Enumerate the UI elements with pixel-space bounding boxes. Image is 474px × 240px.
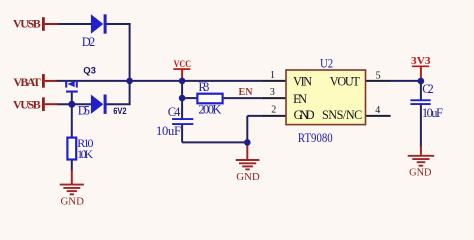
svg-text:D2: D2 [82, 35, 96, 49]
svg-text:4: 4 [375, 105, 380, 116]
svg-text:GND: GND [60, 196, 84, 208]
svg-text:VOUT: VOUT [330, 74, 361, 88]
svg-text:RT9080: RT9080 [298, 131, 333, 145]
svg-text:GND: GND [236, 171, 260, 183]
svg-text:200K: 200K [198, 103, 221, 117]
svg-text:5: 5 [376, 71, 381, 82]
svg-text:GND: GND [294, 108, 315, 122]
svg-text:10uF: 10uF [156, 124, 181, 138]
svg-text:3: 3 [270, 87, 275, 98]
svg-text:EN: EN [239, 86, 253, 98]
svg-text:10K: 10K [77, 147, 93, 161]
svg-text:U2: U2 [320, 57, 333, 71]
svg-text:D5: D5 [78, 103, 90, 117]
svg-text:SNS/NC: SNS/NC [322, 108, 362, 122]
svg-text:GND: GND [409, 167, 431, 179]
svg-text:R3: R3 [198, 80, 209, 94]
svg-text:10uF: 10uF [422, 106, 443, 120]
svg-text:1: 1 [270, 70, 275, 81]
svg-text:VBAT: VBAT [13, 75, 40, 89]
svg-text:VUSB: VUSB [13, 17, 41, 31]
svg-text:6V2: 6V2 [113, 106, 126, 117]
svg-text:C2: C2 [422, 82, 434, 96]
svg-text:EN: EN [293, 92, 307, 106]
svg-text:VIN: VIN [293, 74, 312, 88]
svg-text:C4: C4 [168, 105, 181, 119]
svg-text:Q3: Q3 [83, 65, 96, 76]
svg-text:2: 2 [271, 105, 276, 116]
svg-text:VUSB: VUSB [13, 98, 41, 112]
